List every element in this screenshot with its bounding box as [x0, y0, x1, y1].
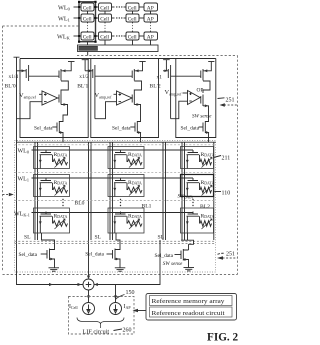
- svg-text:BL′1: BL′1: [77, 84, 88, 90]
- ground symbol col B: [115, 268, 126, 271]
- svg-text:251: 251: [226, 251, 235, 257]
- svg-text:SL: SL: [24, 235, 31, 241]
- node 251 upper label: [218, 98, 235, 104]
- svg-text:BL2: BL2: [200, 204, 210, 210]
- svg-text:Cell: Cell: [128, 34, 137, 40]
- svg-text:x1/2: x1/2: [79, 74, 89, 80]
- wire tick below hatched segment: [87, 52, 89, 56]
- dashed separator line 1: [15, 240, 216, 242]
- wire BL'2 net: [163, 60, 170, 71]
- readout box column 1: [20, 59, 88, 138]
- wire top rail: [20, 58, 216, 60]
- dashed row separator 2-3: [15, 200, 216, 202]
- svg-text:Sel_data: Sel_data: [85, 252, 104, 258]
- transistor SL switch col A: [41, 249, 55, 268]
- svg-text:x1: x1: [157, 75, 163, 81]
- svg-text:260: 260: [123, 328, 132, 334]
- reference memory array dotted box: [15, 141, 216, 273]
- power tap T-bar col2: [139, 61, 145, 63]
- vertical ellipsis between rows: [62, 199, 193, 206]
- wire BL1 line: [162, 142, 164, 240]
- svg-text:Sel_data: Sel_data: [34, 126, 53, 132]
- wire column connectors rows 1-2: [88, 11, 151, 14]
- wire WL0 row lead: [74, 6, 81, 8]
- wire horizontal bus below readout: [17, 141, 216, 143]
- node 211 label: [214, 156, 231, 162]
- wire WL1 row line middle: [32, 177, 194, 179]
- svg-text:OP: OP: [197, 88, 204, 94]
- memory cell boxes row K: [81, 32, 158, 40]
- svg-text:Cell: Cell: [100, 34, 109, 40]
- wire BL2 line: [213, 142, 215, 240]
- transistor mirror input PMOS col1: [17, 65, 29, 81]
- node arrowhead on summation left input at x=50: [49, 283, 53, 286]
- svg-text:AP: AP: [147, 16, 154, 22]
- power tap T-bar col1: [68, 61, 75, 63]
- wire SL column A pair line: [37, 142, 39, 240]
- transistor Sel_data NMOS col2: [130, 121, 141, 142]
- node 260 label: [114, 328, 132, 334]
- legend outer box: [146, 294, 237, 321]
- dashed separator line 2: [15, 243, 216, 245]
- memory cell C3: [181, 208, 215, 233]
- svg-text:x1/4: x1/4: [9, 74, 19, 80]
- ground symbol col A: [49, 268, 60, 271]
- svg-text:110: 110: [222, 191, 231, 197]
- memory cell boxes row 2: [81, 14, 158, 22]
- selected segment hatched: [79, 46, 98, 50]
- wire WL1 row lead: [74, 17, 81, 19]
- svg-text:150: 150: [126, 290, 135, 296]
- legend box reference readout circuit: [150, 307, 233, 317]
- power tap T-bar col3: [208, 61, 214, 63]
- node 110 label: [215, 191, 231, 197]
- wire branch to I_AP: [115, 285, 117, 303]
- cell text labels: [83, 5, 154, 40]
- wire SL column C line: [181, 142, 183, 240]
- svg-text:SW sense: SW sense: [163, 261, 183, 267]
- svg-text:SL: SL: [95, 235, 102, 241]
- svg-text:FIG. 2: FIG. 2: [207, 332, 238, 344]
- wire BL1 pair line: [165, 142, 167, 240]
- node arrowhead BL0 into sum: [87, 276, 90, 280]
- node arrowhead into LIF box left: [87, 296, 90, 300]
- svg-text:Sel_data: Sel_data: [155, 253, 174, 259]
- transistor Sel_data NMOS col1: [52, 121, 63, 142]
- wire op-amp feedback to BL'0: [17, 102, 43, 119]
- wire mirror gate rail col2: [95, 75, 132, 77]
- svg-text:Cell: Cell: [83, 16, 92, 22]
- svg-text:SWDATA: SWDATA: [178, 195, 194, 200]
- svg-text:WL0: WL0: [58, 5, 71, 12]
- transistor Sel_data NMOS col3: [199, 121, 210, 142]
- transistor sense switch col C: [175, 249, 189, 268]
- wire BL0 line to summation: [88, 142, 90, 277]
- memory cell boxes row 1: [81, 3, 158, 11]
- wire left pointer arrow to array box: [3, 193, 14, 197]
- svg-text:Cell: Cell: [100, 5, 109, 11]
- transistor sense NMOS col1: [59, 93, 68, 122]
- dashed row separator top: [15, 144, 216, 146]
- svg-text:Reference readout circuit: Reference readout circuit: [152, 310, 225, 317]
- transistor SL switch col B: [107, 249, 121, 268]
- svg-text:Cell: Cell: [83, 34, 92, 40]
- svg-text:Cell: Cell: [128, 5, 137, 11]
- transistor mirror input PMOS col2: [85, 65, 95, 119]
- svg-text:Cell: Cell: [83, 5, 92, 11]
- memory cell A1: [34, 147, 70, 169]
- wire mirror gate rail col3: [171, 75, 201, 77]
- svg-text:WLK-1: WLK-1: [14, 212, 30, 218]
- node arrowhead on summation left input at x=78: [78, 283, 82, 286]
- svg-text:IAP: IAP: [124, 304, 132, 310]
- wire SL column C pair line: [184, 142, 186, 240]
- wire SL column A line: [34, 142, 36, 240]
- legend box reference memory array: [150, 296, 233, 306]
- svg-text:Cell: Cell: [128, 16, 137, 22]
- svg-text:BL1: BL1: [142, 204, 152, 210]
- svg-text:AP: AP: [147, 5, 154, 11]
- LIF circuit dashed box: [69, 297, 135, 335]
- ellipsis dots between columns: [116, 6, 122, 36]
- node arrowhead into LIF box right: [114, 296, 117, 300]
- memory cell A3: [34, 208, 70, 233]
- wire SL column B line: [109, 142, 111, 240]
- transistor mirror output PMOS col1: [59, 62, 71, 81]
- ground symbol col C: [184, 268, 195, 271]
- op-amp U1: [39, 91, 59, 105]
- op-amp U3: [183, 91, 201, 105]
- wire WLK row lead: [74, 35, 81, 37]
- wire dashed pointer lower right: [217, 256, 238, 260]
- memory cell B3: [108, 208, 144, 233]
- wire SL3 to summation: [94, 240, 160, 285]
- wire PMOS drain to sense NMOS col3: [203, 81, 210, 93]
- current source I_Cell: [83, 303, 95, 315]
- readout box column 3: [176, 59, 216, 138]
- wire op-amp feedback to BL'1: [95, 102, 117, 119]
- wire PMOS drain to sense NMOS col2: [134, 81, 141, 93]
- svg-text:Sel_data: Sel_data: [181, 126, 200, 132]
- readout bus box: [78, 45, 159, 52]
- wire column connectors row K to bus: [88, 40, 151, 45]
- svg-text:ICell: ICell: [69, 304, 78, 310]
- svg-text:Reference memory array: Reference memory array: [152, 298, 225, 305]
- wire dashed pointer upper right: [220, 103, 238, 107]
- highlighted column box: [79, 2, 96, 42]
- svg-text:251: 251: [226, 98, 235, 104]
- outer dashed box: [3, 26, 238, 275]
- wire BL0 pair line: [90, 142, 92, 240]
- svg-text:211: 211: [222, 156, 231, 162]
- wire WLK-1 row line middle: [32, 212, 194, 214]
- transistor sense NMOS col2: [132, 93, 140, 122]
- current source I_AP: [110, 303, 122, 315]
- readout box column 2: [91, 59, 159, 138]
- svg-text:BL′2: BL′2: [150, 84, 161, 90]
- transistor sense NMOS col3: [201, 95, 209, 122]
- transistor mirror output PMOS col3: [201, 62, 212, 81]
- wire dotted column continuation rows 2-K: [88, 23, 151, 32]
- svg-text:AP: AP: [147, 34, 154, 40]
- memory cell C2 highlighted 110: [178, 175, 215, 200]
- memory cell B1: [108, 147, 144, 169]
- svg-text:WL1: WL1: [58, 16, 70, 23]
- wire BL'1 net: [82, 60, 89, 71]
- node 150 label: [116, 290, 135, 300]
- memory cell A2: [34, 175, 70, 197]
- svg-text:WLK: WLK: [57, 34, 71, 41]
- memory cell B2: [108, 175, 144, 197]
- wire SL tap col C: [181, 233, 194, 250]
- svg-text:WL0: WL0: [18, 149, 29, 155]
- wire op-amp feedback to BL'2: [171, 101, 188, 119]
- wire WL0 row line middle: [32, 149, 194, 151]
- summation node: [83, 279, 94, 290]
- transistor mirror output PMOS col2: [132, 62, 142, 81]
- transistor mirror input PMOS col3: [163, 65, 171, 119]
- underbrace grouping current sources: [77, 318, 124, 329]
- wire SL column B pair line: [112, 142, 114, 240]
- memory cell C1: [181, 147, 215, 169]
- svg-text:Cell: Cell: [100, 16, 109, 22]
- wire sum to I_Cell: [88, 290, 90, 303]
- node arrowhead SL3 into sum: [94, 283, 98, 286]
- svg-text:WL1: WL1: [18, 177, 29, 183]
- dashed row separator 1-2: [15, 171, 216, 173]
- svg-text:SL: SL: [158, 235, 165, 241]
- svg-text:BL0: BL0: [75, 201, 85, 207]
- wire PMOS drain to sense NMOS col1: [61, 81, 68, 93]
- wire mirror gate rail col1: [29, 75, 59, 77]
- wire BL'0 net: [14, 57, 84, 284]
- svg-text:LIF circuit: LIF circuit: [83, 329, 110, 336]
- highlighted column corner pads: [78, 1, 97, 43]
- op-amp U2: [114, 91, 133, 105]
- svg-text:Sel_data: Sel_data: [19, 252, 38, 258]
- svg-text:Sel_data: Sel_data: [112, 126, 131, 132]
- svg-text:SW sense: SW sense: [192, 114, 212, 120]
- wire legend pointer arrow: [133, 309, 147, 313]
- svg-text:BL′0: BL′0: [5, 84, 16, 90]
- wire SL tap col A: [42, 233, 55, 250]
- node 251 lower label: [218, 251, 236, 257]
- wire SL tap col B: [115, 233, 120, 250]
